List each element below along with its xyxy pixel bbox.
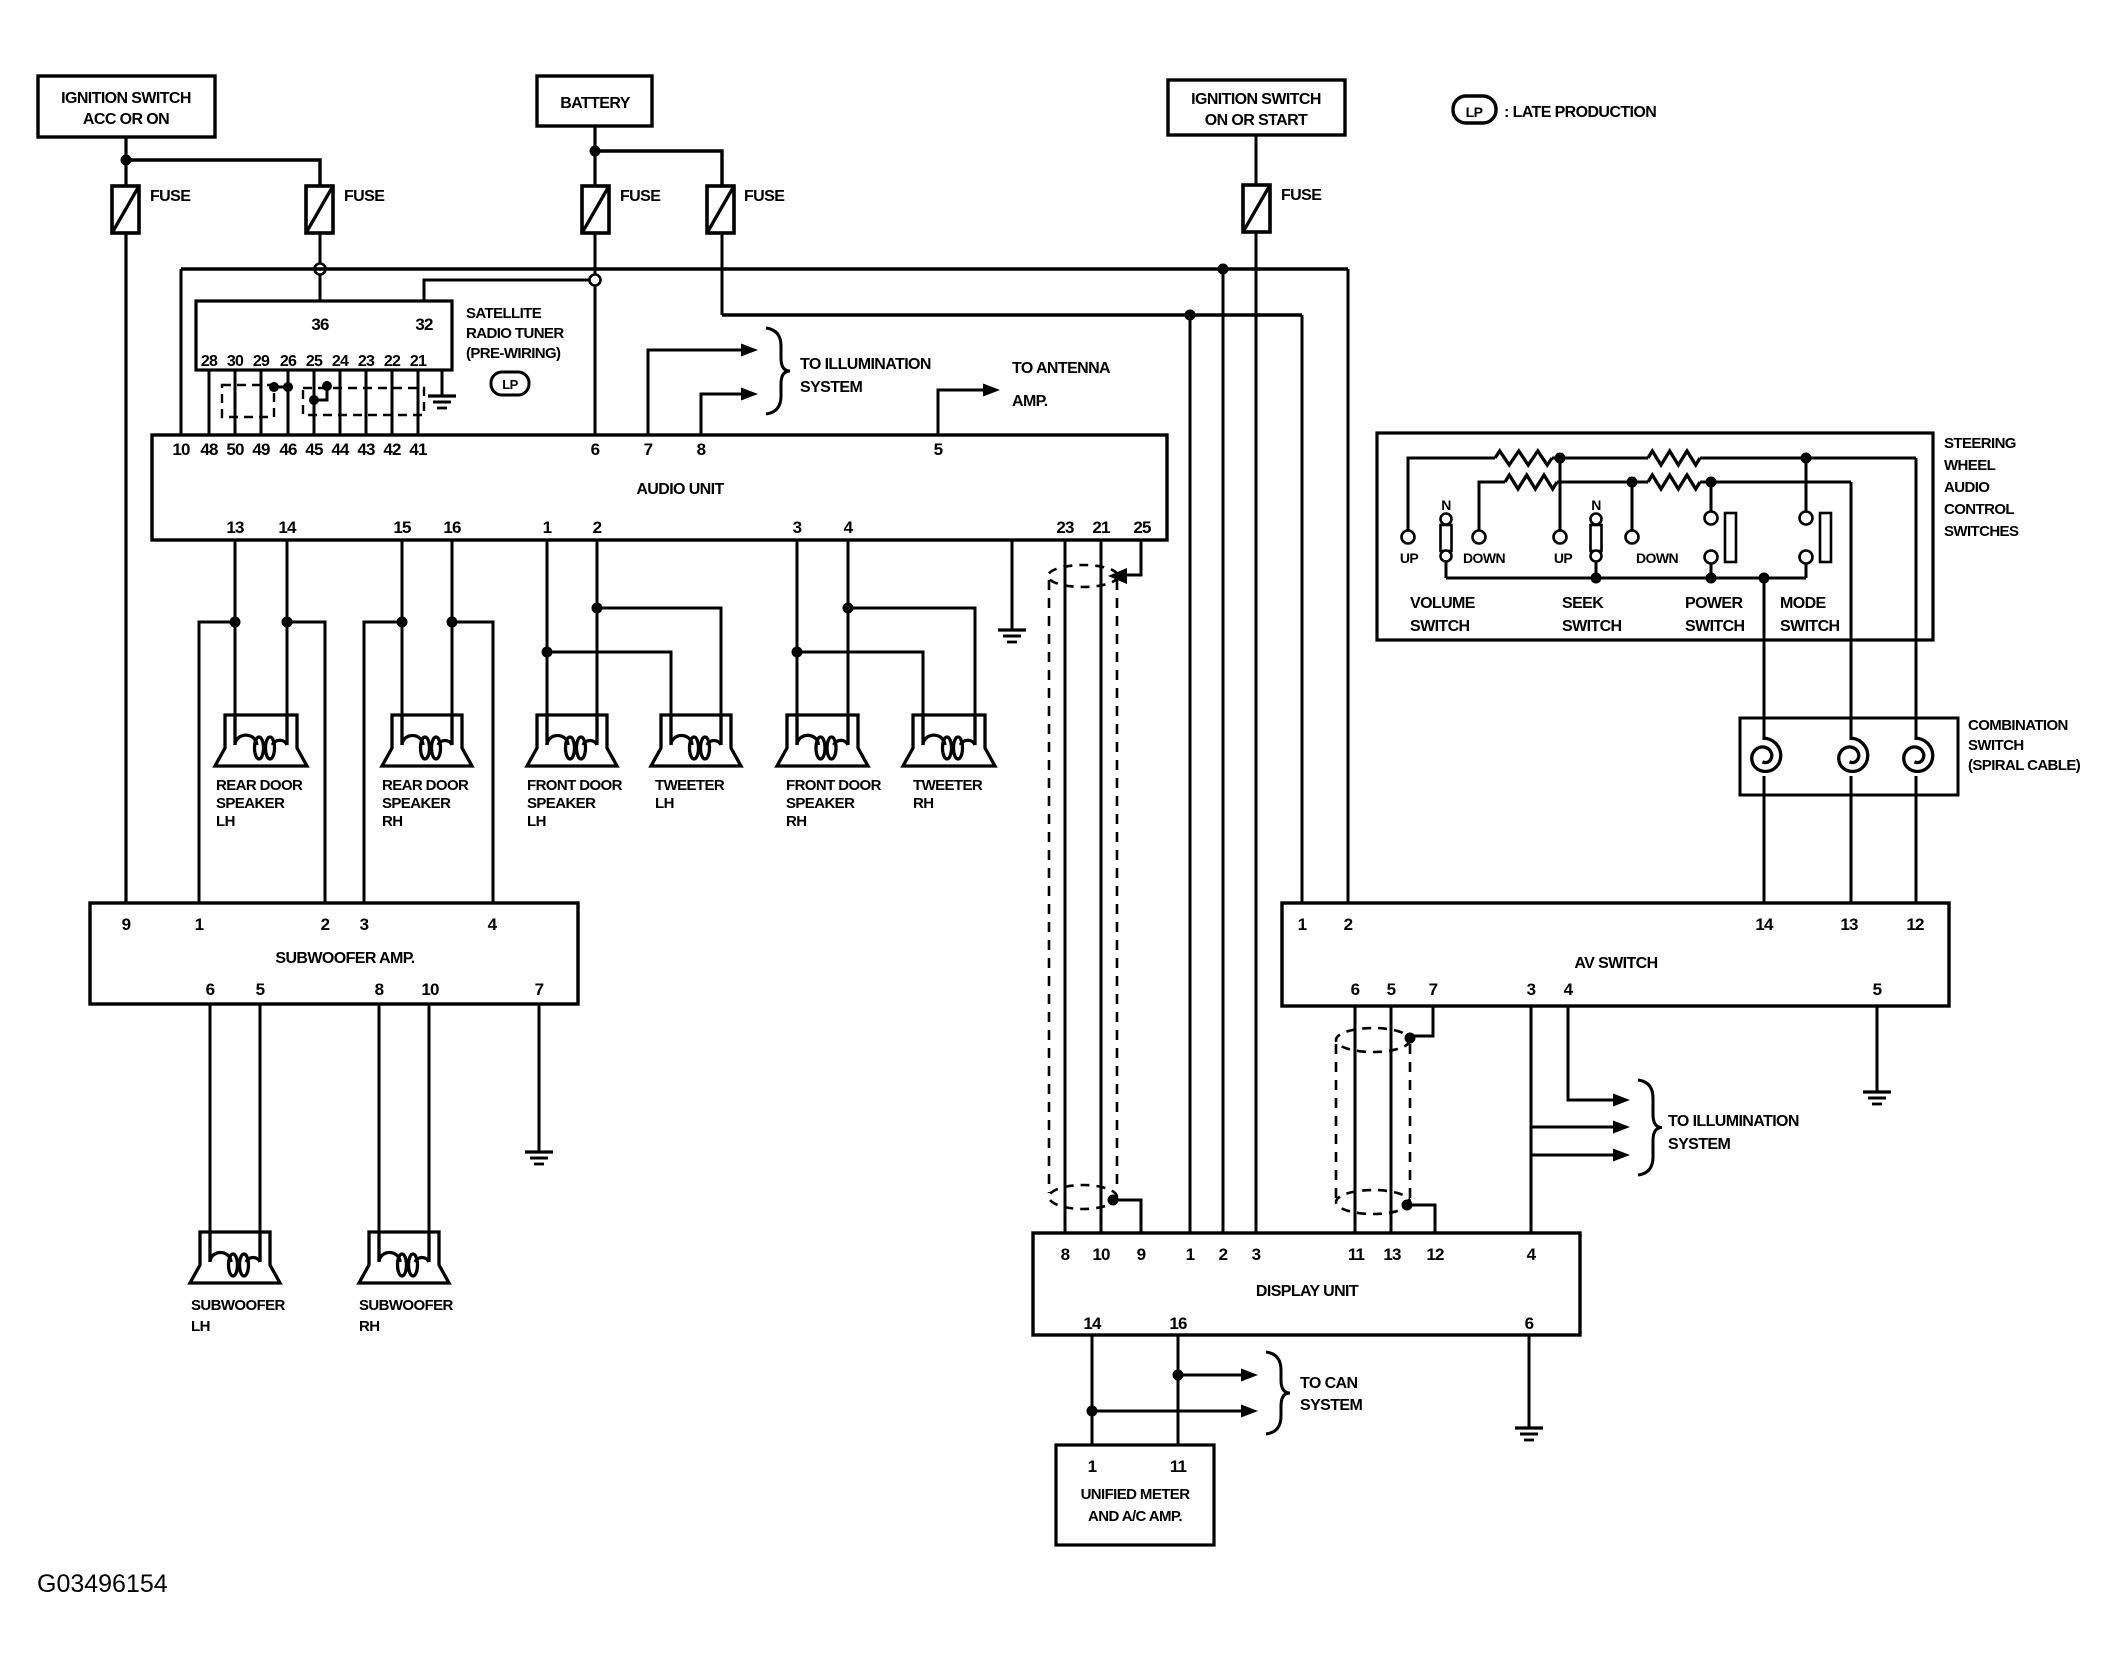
svg-text:5: 5 <box>934 440 943 459</box>
subwoofer amp bottom pin numbers <box>206 980 544 999</box>
wire audio pin 3 to front RH speaker <box>796 540 799 745</box>
wire sub amp pin 8 to subwoofer RH <box>378 1004 381 1262</box>
svg-text:G03496154: G03496154 <box>37 1570 168 1598</box>
wire display pin 14 to unified meter pin 1 <box>1091 1335 1094 1445</box>
svg-text:8: 8 <box>697 440 706 459</box>
svg-text:22: 22 <box>384 353 401 370</box>
svg-text:FRONT DOOR: FRONT DOOR <box>786 777 882 794</box>
wire display pin 16 to unified meter pin 11 <box>1177 1335 1180 1445</box>
junction dot row2 seek-down <box>1627 477 1638 488</box>
svg-text:8: 8 <box>1061 1245 1070 1264</box>
svg-text:LP: LP <box>502 377 518 392</box>
fuse F2 <box>306 186 333 233</box>
junction dot CAN high <box>1173 1370 1184 1381</box>
svg-text:6: 6 <box>591 440 600 459</box>
svg-text:SWITCHES: SWITCHES <box>1944 523 2019 540</box>
svg-text:25: 25 <box>1133 518 1151 537</box>
wire audio pin 4 to front RH speaker <box>847 540 850 745</box>
svg-text:BATTERY: BATTERY <box>560 95 631 112</box>
svg-text:1: 1 <box>1186 1245 1195 1264</box>
wire satellite ground <box>441 370 444 396</box>
display unit bottom pin numbers <box>1083 1314 1533 1333</box>
wire audio pin 7 to illumination <box>648 350 741 435</box>
wire branch illumination mid <box>1531 1126 1613 1129</box>
brace CAN system <box>1266 1352 1290 1434</box>
arrow to antenna amp <box>983 384 1000 397</box>
svg-text:WHEEL: WHEEL <box>1944 457 1996 474</box>
svg-text:FUSE: FUSE <box>150 188 191 205</box>
speaker front door LH <box>527 715 617 766</box>
svg-text:21: 21 <box>1092 518 1110 537</box>
svg-text:6: 6 <box>1525 1314 1534 1333</box>
shield cable 2 bottom ellipse <box>1336 1190 1410 1214</box>
wire row2 right <box>1700 481 1851 484</box>
junction dot battery bus to display <box>1185 310 1196 321</box>
svg-text:RH: RH <box>913 795 933 812</box>
wire audio pin 21 to display pin 10 <box>1100 540 1103 1233</box>
wire branch illumination bottom <box>1531 1154 1613 1157</box>
svg-text:9: 9 <box>1137 1245 1146 1264</box>
wire sub amp pin 5 to subwoofer LH <box>259 1004 262 1262</box>
label subwoofer LH <box>191 1297 286 1335</box>
svg-text:28: 28 <box>201 353 218 370</box>
svg-text:41: 41 <box>409 440 427 459</box>
svg-text:2: 2 <box>593 518 602 537</box>
svg-text:TWEETER: TWEETER <box>913 777 983 794</box>
wire branch to subwoofer amp pin 2 <box>287 622 325 903</box>
shield dashed box A (pins 50,49) <box>222 385 274 417</box>
svg-text:RH: RH <box>359 1318 379 1335</box>
ground subwoofer amp <box>525 1152 553 1164</box>
junction dot pin 3 <box>792 647 803 658</box>
speaker subwoofer LH <box>190 1232 280 1283</box>
svg-text:16: 16 <box>1169 1314 1187 1333</box>
svg-text:DOWN: DOWN <box>1463 550 1505 566</box>
box: steering wheel audio control switches <box>1377 433 1933 640</box>
svg-text:13: 13 <box>226 518 244 537</box>
ground audio unit <box>998 630 1026 642</box>
box: battery <box>537 76 652 126</box>
svg-text:(SPIRAL CABLE): (SPIRAL CABLE) <box>1968 757 2081 774</box>
wire battery down <box>593 126 596 186</box>
svg-text:1: 1 <box>543 518 552 537</box>
speaker front door RH <box>777 715 868 766</box>
shield cable 1 bottom ellipse <box>1049 1185 1117 1209</box>
svg-text:LH: LH <box>655 795 674 812</box>
svg-text:14: 14 <box>278 518 297 537</box>
svg-text:3: 3 <box>360 915 369 934</box>
svg-text:CONTROL: CONTROL <box>1944 501 2014 518</box>
shield dashed box B (pins 45-41) <box>303 388 424 415</box>
shield cable 1 top ellipse <box>1048 565 1118 587</box>
arrow to CAN low <box>1241 1405 1258 1418</box>
svg-text:23: 23 <box>358 353 375 370</box>
speaker rear door RH <box>382 715 472 766</box>
shield cable 1 left dashed wire <box>1048 580 1051 1193</box>
junction dot cable 2 shield drain <box>1402 1200 1413 1211</box>
box: AV switch <box>1282 903 1949 1006</box>
svg-text:IGNITION SWITCH: IGNITION SWITCH <box>61 90 191 107</box>
label to CAN system <box>1300 1375 1362 1414</box>
svg-text:(PRE-WIRING): (PRE-WIRING) <box>466 345 561 362</box>
wire audio pin 8 to illumination <box>701 394 741 435</box>
resistor R1 row1 <box>1495 451 1552 465</box>
wire branch to subwoofer amp pin 1 <box>199 622 235 903</box>
svg-text:30: 30 <box>227 353 244 370</box>
junction dot power on bus <box>1706 573 1717 584</box>
mode switch contacts <box>1800 512 1832 564</box>
volume N slider <box>1441 514 1452 562</box>
svg-text:11: 11 <box>1170 1457 1187 1476</box>
svg-text:ON OR START: ON OR START <box>1205 112 1308 129</box>
box: satellite radio tuner <box>196 301 452 370</box>
box: ignition switch ACC or ON <box>38 76 215 137</box>
svg-text:AND A/C AMP.: AND A/C AMP. <box>1088 1508 1182 1525</box>
svg-text:SUBWOOFER: SUBWOOFER <box>359 1297 454 1314</box>
svg-text:8: 8 <box>375 980 384 999</box>
svg-text:SPEAKER: SPEAKER <box>786 795 855 812</box>
svg-text:45: 45 <box>305 440 323 459</box>
shield cable 2 top ellipse <box>1336 1028 1410 1052</box>
wire AV pin 4 to illumination <box>1568 1006 1613 1100</box>
power switch contacts <box>1705 512 1737 564</box>
wire branch to tweeter RH left <box>797 652 923 745</box>
box: audio unit <box>152 435 1167 540</box>
shield cable 1 right dashed wire <box>1116 580 1119 1190</box>
arrow illumination mid <box>1613 1121 1630 1134</box>
svg-text:STEERING: STEERING <box>1944 435 2016 452</box>
svg-text:5: 5 <box>1387 980 1396 999</box>
svg-text:RH: RH <box>382 813 402 830</box>
subwoofer amp top pin numbers <box>122 915 498 934</box>
junction dot pin 14 <box>282 617 293 628</box>
wire seek up stub <box>1559 458 1562 531</box>
wire combination 2 to AV pin 13 <box>1850 776 1853 903</box>
audio unit top pin numbers <box>172 440 942 459</box>
svg-text:13: 13 <box>1840 915 1858 934</box>
wire audio pin 5 to antenna amp <box>938 390 983 435</box>
wire battery bus <box>722 313 1302 316</box>
label to antenna amp <box>1012 360 1111 410</box>
svg-text:SYSTEM: SYSTEM <box>1668 1136 1730 1153</box>
svg-text:25: 25 <box>306 353 323 370</box>
wire power bottom stub <box>1710 563 1713 578</box>
svg-text:3: 3 <box>793 518 802 537</box>
svg-text:SYSTEM: SYSTEM <box>800 379 862 396</box>
svg-text:FUSE: FUSE <box>1281 187 1322 204</box>
svg-text:N: N <box>1441 497 1451 513</box>
junction dot CAN low <box>1087 1406 1098 1417</box>
svg-text:50: 50 <box>226 440 244 459</box>
wire branch to tweeter LH left <box>547 652 671 745</box>
svg-text:SPEAKER: SPEAKER <box>527 795 596 812</box>
arrow illumination bottom <box>1613 1149 1630 1162</box>
svg-text:IGNITION SWITCH: IGNITION SWITCH <box>1191 91 1321 108</box>
svg-text:AV SWITCH: AV SWITCH <box>1574 955 1657 972</box>
wire seek N to bus <box>1595 561 1598 578</box>
wire branch battery to fuse F4 <box>595 151 722 186</box>
svg-text:44: 44 <box>331 440 350 459</box>
wire ACC bus <box>181 267 1348 270</box>
label mode switch <box>1780 595 1840 635</box>
junction dot cable 1 shield drain <box>1108 1195 1119 1206</box>
junction dot pin 13 <box>230 617 241 628</box>
speaker subwoofer RH <box>359 1232 449 1283</box>
wire mode bottom stub <box>1805 563 1808 578</box>
svg-text:LH: LH <box>527 813 546 830</box>
svg-text:24: 24 <box>332 353 349 370</box>
wire audio pin 25 to cable shield <box>1127 540 1141 575</box>
wire AV pin 7 to cable shield <box>1412 1006 1433 1036</box>
label subwoofer RH <box>359 1297 454 1335</box>
volume down contact <box>1473 531 1486 544</box>
wire drop to display pin 2 <box>1222 269 1225 1233</box>
junction dot AV pin 7 shield <box>1405 1033 1416 1044</box>
svg-text:32: 32 <box>415 315 433 334</box>
junction dot pin 16 <box>447 617 458 628</box>
wire switch bus <box>1446 577 1806 580</box>
svg-text:FRONT DOOR: FRONT DOOR <box>527 777 623 794</box>
svg-text:AMP.: AMP. <box>1012 393 1048 410</box>
brace illumination system <box>766 328 790 414</box>
svg-text:ACC OR ON: ACC OR ON <box>83 111 169 128</box>
svg-text:UNIFIED METER: UNIFIED METER <box>1081 1486 1191 1503</box>
wire row2 mid <box>1557 481 1648 484</box>
label steering wheel audio control switches <box>1944 435 2019 540</box>
wire AV pin 5 ground <box>1876 1006 1879 1092</box>
wire ACC bus left drop to audio pin 10 <box>180 269 183 435</box>
svg-text:SWITCH: SWITCH <box>1780 618 1840 635</box>
svg-text:13: 13 <box>1383 1245 1401 1264</box>
svg-text:6: 6 <box>1351 980 1360 999</box>
svg-text:1: 1 <box>1298 915 1307 934</box>
junction dot bus to combination <box>1759 573 1770 584</box>
wire shield drain to display pin 9 <box>1113 1200 1141 1233</box>
svg-text:7: 7 <box>644 440 653 459</box>
svg-text:46: 46 <box>279 440 297 459</box>
LP symbol satellite <box>491 372 529 395</box>
wire fuse F3 to audio pin 6 <box>594 233 597 435</box>
svg-text:FUSE: FUSE <box>620 188 661 205</box>
wire audio pin 15 to rear RH speaker <box>401 540 404 745</box>
svg-text:POWER: POWER <box>1685 595 1743 612</box>
arrow to CAN high <box>1241 1369 1258 1382</box>
connector circle on ACC bus <box>315 264 326 275</box>
volume up contact <box>1402 531 1415 544</box>
wire mode top stub <box>1805 458 1808 512</box>
wire audio pin 23 to display pin 8 <box>1064 540 1067 1233</box>
svg-text:26: 26 <box>280 353 297 370</box>
svg-text:AUDIO UNIT: AUDIO UNIT <box>636 481 724 498</box>
svg-text:2: 2 <box>1344 915 1353 934</box>
wire drop to display pin 1 <box>1189 315 1192 1233</box>
junction dot battery split <box>590 146 601 157</box>
wire branch to fuse F2 <box>126 160 320 186</box>
svg-text:5: 5 <box>256 980 265 999</box>
wire sub amp pin 6 to subwoofer LH <box>209 1004 212 1262</box>
junction dot pin 1 <box>542 647 553 658</box>
svg-text:DOWN: DOWN <box>1636 550 1678 566</box>
svg-text:4: 4 <box>1564 980 1574 999</box>
svg-text:4: 4 <box>844 518 854 537</box>
wire ACC bus right drop to AV pin 2 <box>1347 269 1350 903</box>
wire ignition ON down <box>1255 135 1258 185</box>
svg-text:RADIO TUNER: RADIO TUNER <box>466 325 564 342</box>
arrowhead pin 25 to shield <box>1108 568 1127 584</box>
shield B drain junction dots <box>309 381 332 405</box>
svg-text:SYSTEM: SYSTEM <box>1300 1397 1362 1414</box>
svg-text:49: 49 <box>252 440 270 459</box>
wire audio pin 14 to rear LH speaker <box>286 540 289 745</box>
svg-text:3: 3 <box>1527 980 1536 999</box>
wires satellite pins to audio unit <box>209 370 418 435</box>
brace illumination system 2 <box>1638 1080 1662 1175</box>
wire bus drop to combination switch <box>1763 578 1766 740</box>
box: combination switch <box>1740 718 1958 795</box>
svg-text:2: 2 <box>321 915 330 934</box>
seek down contact <box>1626 531 1639 544</box>
resistor R2 row1 <box>1648 451 1700 465</box>
wire sub amp pin 7 ground <box>538 1004 541 1152</box>
box: display unit <box>1033 1233 1580 1335</box>
svg-text:7: 7 <box>1429 980 1438 999</box>
wire seek down stub <box>1631 482 1634 531</box>
ground AV switch <box>1863 1092 1891 1104</box>
svg-text:COMBINATION: COMBINATION <box>1968 717 2068 734</box>
shield A drain junction dots <box>269 382 293 392</box>
spiral cable contact 2 <box>1839 738 1868 771</box>
wire battery bus drop to AV pin 1 <box>1301 315 1304 903</box>
speaker tweeter RH <box>903 715 995 766</box>
seek up contact <box>1554 531 1567 544</box>
wire display pin 6 ground <box>1528 1335 1531 1428</box>
junction dot pin 15 <box>397 617 408 628</box>
svg-text:MODE: MODE <box>1780 595 1827 612</box>
svg-text:4: 4 <box>488 915 498 934</box>
junction dot pin 2 <box>592 603 603 614</box>
svg-text:36: 36 <box>311 315 329 334</box>
wire sub amp pin 10 to subwoofer RH <box>428 1004 431 1262</box>
label tweeter RH <box>913 777 983 812</box>
wire branch to subwoofer amp pin 3 <box>364 622 402 903</box>
wire fuse F4 down <box>721 233 724 315</box>
svg-text:11: 11 <box>1348 1245 1365 1264</box>
junction dot row1 mode <box>1801 453 1812 464</box>
shield cable 2 right dashed wire <box>1409 1044 1412 1198</box>
wire audio pin 16 to rear RH speaker <box>451 540 454 745</box>
wire row2 drop to combination switch <box>1850 482 1853 740</box>
wire branch to subwoofer amp pin 4 <box>452 622 493 903</box>
wire combination 1 to AV pin 14 <box>1763 776 1766 903</box>
label front door speaker RH <box>786 777 882 830</box>
AV switch bottom pin numbers <box>1351 980 1882 999</box>
svg-text:23: 23 <box>1056 518 1074 537</box>
wire audio pin 13 to rear LH speaker <box>234 540 237 745</box>
svg-text:10: 10 <box>172 440 190 459</box>
seek N slider <box>1591 514 1602 562</box>
svg-text:7: 7 <box>535 980 544 999</box>
resistor R4 row2 <box>1648 475 1700 489</box>
wire AV pin 3 to display pin 4 <box>1530 1006 1533 1233</box>
svg-text:43: 43 <box>357 440 375 459</box>
svg-text:REAR DOOR: REAR DOOR <box>382 777 469 794</box>
svg-text:14: 14 <box>1755 915 1774 934</box>
svg-text:SWITCH: SWITCH <box>1410 618 1470 635</box>
wire fuse F2 to satellite pin 36 <box>319 233 322 301</box>
audio unit bottom pin numbers <box>226 518 1151 537</box>
junction dot ACC split <box>121 155 132 166</box>
wire AV pin 5 to display pin 13 <box>1390 1006 1393 1233</box>
svg-text:5: 5 <box>1873 980 1882 999</box>
label seek switch <box>1562 595 1622 635</box>
svg-text:UP: UP <box>1554 550 1573 566</box>
label to illumination system <box>800 356 931 396</box>
wire volume N to bus <box>1445 561 1448 578</box>
wire audio pin 1 to front LH speaker <box>546 540 549 745</box>
label rear door speaker LH <box>216 777 303 830</box>
wire fuse F5 to display pin 3 <box>1255 232 1258 1233</box>
wire CAN arrow high <box>1178 1374 1241 1377</box>
svg-text:DISPLAY UNIT: DISPLAY UNIT <box>1256 1283 1359 1300</box>
wire CAN arrow low <box>1092 1410 1241 1413</box>
svg-text:SUBWOOFER: SUBWOOFER <box>191 1297 286 1314</box>
ground satellite <box>428 396 456 408</box>
shield cable 2 left dashed wire <box>1335 1044 1338 1200</box>
wire AV pin 6 to display pin 11 <box>1354 1006 1357 1233</box>
legend LP symbol <box>1453 96 1496 123</box>
label combination switch <box>1968 717 2081 774</box>
wire power top stub <box>1710 482 1713 512</box>
wire shield 2 drain to display pin 12 <box>1407 1205 1435 1233</box>
svg-text:N: N <box>1591 497 1601 513</box>
svg-text:SUBWOOFER AMP.: SUBWOOFER AMP. <box>275 950 414 967</box>
speaker rear door LH <box>215 715 307 766</box>
label volume switch <box>1410 595 1476 635</box>
svg-text:FUSE: FUSE <box>744 188 785 205</box>
junction dot row2 power <box>1706 477 1717 488</box>
display unit top pin numbers <box>1061 1245 1537 1264</box>
box: subwoofer amp <box>90 903 578 1004</box>
svg-text:1: 1 <box>1088 1457 1097 1476</box>
svg-text:12: 12 <box>1906 915 1924 934</box>
svg-text:2: 2 <box>1219 1245 1228 1264</box>
wire ACC feed down to subwoofer amp pin 9 <box>124 233 127 903</box>
svg-text:AUDIO: AUDIO <box>1944 479 1990 496</box>
wire row1 left segment <box>1408 458 1495 530</box>
AV switch top pin numbers <box>1298 915 1924 934</box>
svg-text:SATELLITE: SATELLITE <box>466 305 542 322</box>
svg-text:TWEETER: TWEETER <box>655 777 725 794</box>
arrow illumination upper <box>741 344 758 357</box>
svg-text:6: 6 <box>206 980 215 999</box>
svg-text:SWITCH: SWITCH <box>1968 737 2024 754</box>
svg-text:TO ILLUMINATION: TO ILLUMINATION <box>1668 1113 1799 1130</box>
svg-text:LP: LP <box>1466 104 1483 120</box>
wire audio ground pin <box>1011 540 1014 630</box>
ground display unit <box>1515 1428 1543 1440</box>
wire row1 drop to combination switch <box>1915 458 1918 740</box>
svg-text:SWITCH: SWITCH <box>1562 618 1622 635</box>
wire row2 left segment <box>1479 482 1505 530</box>
svg-text:10: 10 <box>421 980 439 999</box>
svg-text:TO CAN: TO CAN <box>1300 1375 1357 1392</box>
junction dot pin 4 <box>843 603 854 614</box>
svg-text:LH: LH <box>191 1318 210 1335</box>
junction dot ACC bus to display <box>1218 264 1229 275</box>
label satellite radio tuner <box>466 305 564 362</box>
svg-text:SPEAKER: SPEAKER <box>382 795 451 812</box>
svg-text:3: 3 <box>1252 1245 1261 1264</box>
